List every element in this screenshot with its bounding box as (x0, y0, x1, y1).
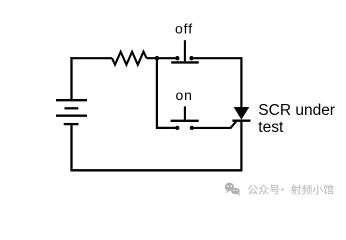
wire: top rail down to battery positive plate (70, 57, 72, 100)
watermark logo (chat bubbles) (225, 183, 240, 196)
wire: junction down to on-switch level (157, 58, 176, 128)
wire: off-switch right contact to top-right corner and down to SCR anode (194, 58, 242, 107)
battery (4 plates: long-short-long-short) (56, 100, 87, 124)
wire: battery negative plate down to bottom rail (70, 124, 72, 170)
svg-text:on: on (176, 87, 193, 103)
SCR under test (thyristor): anode triangle and cathode bar (232, 107, 250, 121)
svg-text:off: off (175, 21, 193, 37)
resistor (112, 52, 147, 65)
wire: SCR cathode down to bottom rail (240, 121, 242, 171)
svg-text:SCR under: SCR under (258, 102, 335, 119)
wire: top-left horizontal from battery branch to resistor (70, 57, 112, 59)
wire: bottom return (70, 169, 242, 171)
wire: on-switch right contact to SCR gate (194, 121, 236, 128)
pushbutton "off" (normally closed) (171, 40, 199, 62)
watermark text "公众号 · 射频小馆" (vector glyphs) (248, 185, 333, 195)
node: junction of top wire and gate branch (155, 56, 160, 61)
svg-text:test: test (258, 119, 284, 136)
pushbutton "on" (normally open) (171, 106, 199, 130)
wire: resistor to off-switch left contact (147, 57, 176, 59)
